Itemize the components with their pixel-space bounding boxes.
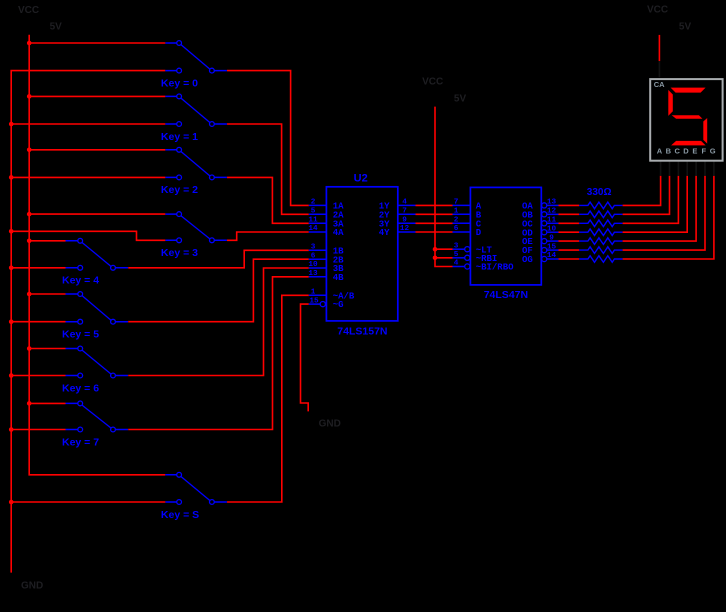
seven-segment display (common anode) — [650, 61, 722, 176]
resistor R2 330Ω — [579, 211, 622, 218]
junction VCC rail / Key=3 top — [27, 212, 32, 217]
svg-text:11: 11 — [308, 217, 318, 225]
wire resistor R2 to display segment B — [623, 176, 670, 215]
svg-text:Key = S: Key = S — [161, 509, 199, 521]
svg-text:U2: U2 — [354, 172, 368, 184]
svg-text:Key = 1: Key = 1 — [161, 131, 198, 143]
display segment F (lit) — [668, 90, 673, 116]
resistor R3 330Ω — [579, 220, 622, 227]
svg-text:4: 4 — [454, 260, 459, 268]
svg-text:6: 6 — [311, 252, 316, 260]
svg-text:Key = 4: Key = 4 — [62, 275, 99, 287]
svg-text:5V: 5V — [50, 21, 63, 32]
svg-text:10: 10 — [547, 225, 557, 233]
svg-text:9: 9 — [549, 234, 554, 242]
switch Key = 2 (SPDT) — [161, 147, 227, 196]
svg-text:Key = 2: Key = 2 — [161, 184, 198, 196]
wire VCC rail to Key=1 top contact — [29, 95, 165, 97]
svg-text:VCC: VCC — [647, 5, 668, 16]
svg-text:Key = 6: Key = 6 — [62, 382, 99, 394]
wire Key=6 common to U2 pin 10 (3B) — [128, 268, 309, 376]
wire resistor R7 to display segment G — [623, 176, 714, 259]
wire Key=7 common to U2 pin 13 (4B) — [128, 277, 309, 430]
junction VCC rail / Key=4 top — [27, 239, 32, 244]
wire Key=1 common to U2 pin 5 (2A) — [227, 124, 309, 214]
svg-text:7: 7 — [454, 199, 459, 207]
svg-text:E: E — [692, 146, 697, 155]
svg-text:4B: 4B — [333, 273, 344, 283]
svg-text:74LS157N: 74LS157N — [337, 326, 387, 338]
svg-text:6: 6 — [454, 225, 459, 233]
svg-text:5: 5 — [311, 208, 316, 216]
switch Key = 0 (SPDT) — [161, 41, 227, 90]
wire VCC rail to Key=5 top contact — [29, 293, 65, 295]
svg-text:4Y: 4Y — [379, 228, 390, 238]
svg-text:74LS47N: 74LS47N — [484, 289, 528, 301]
svg-text:OG: OG — [522, 255, 533, 265]
switch Key = 6 (SPDT) — [62, 346, 128, 394]
wire GND rail (left, vertical) — [11, 71, 165, 573]
junction GND rail / Key=4 bottom — [9, 266, 14, 271]
svg-text:GND: GND — [21, 581, 43, 592]
wire resistor R3 to display segment C — [623, 176, 679, 224]
wire resistor R1 to display segment A — [623, 176, 661, 206]
wire resistor R6 to display segment F — [623, 176, 705, 250]
svg-text:5V: 5V — [679, 21, 692, 32]
svg-text:330Ω: 330Ω — [587, 187, 612, 198]
wire U2 3Y to 74LS47N C — [416, 222, 453, 224]
svg-text:GND: GND — [319, 418, 341, 429]
switch Key = 7 (SPDT) — [62, 401, 128, 448]
wire VCC to 74LS47N ~LT/~RBI/~BI/RBO — [435, 107, 453, 267]
resistor R4 330Ω — [579, 229, 622, 236]
wire VCC rail to Key=3 top contact — [29, 213, 165, 215]
display segment A (lit) — [671, 88, 706, 93]
resistor R1 330Ω — [579, 202, 622, 209]
svg-text:2: 2 — [454, 217, 459, 225]
junction VCC / ~LT — [433, 247, 438, 252]
wire 74LS47N OB to resistor R2 — [559, 213, 580, 215]
junction VCC rail / Key=0 top — [27, 41, 32, 46]
wire resistor R5 to display segment E — [623, 176, 697, 241]
svg-text:A: A — [657, 146, 663, 155]
VCC power symbol (top-right) — [647, 5, 691, 33]
svg-text:7: 7 — [402, 208, 407, 216]
svg-text:~G: ~G — [333, 300, 344, 310]
wire VCC rail to Key=7 top contact — [29, 402, 65, 404]
wire Key=3 common to U2 pin 14 (4A) — [227, 232, 309, 240]
junction VCC rail / Key=2 top — [27, 148, 32, 153]
ground (bottom-left) — [21, 581, 43, 592]
svg-text:4A: 4A — [333, 228, 344, 238]
svg-text:VCC: VCC — [18, 5, 39, 16]
VCC power symbol (middle) — [422, 77, 466, 105]
svg-text:13: 13 — [308, 270, 318, 278]
junction GND rail / Key=S — [9, 500, 14, 505]
wire Key=0 common to U2 pin 2 (1A) — [227, 71, 309, 206]
wire GND rail to Key=5 bottom contact — [11, 321, 65, 323]
junction VCC rail / Key=7 top — [27, 401, 32, 406]
svg-text:5: 5 — [454, 251, 459, 259]
svg-text:14: 14 — [547, 252, 557, 260]
junction GND rail / Key=1 bottom — [9, 122, 14, 127]
svg-text:3: 3 — [454, 242, 459, 250]
svg-text:CA: CA — [654, 80, 665, 89]
svg-text:5V: 5V — [454, 94, 467, 105]
svg-text:15: 15 — [309, 297, 319, 305]
junction GND rail / Key=5 bottom — [9, 319, 14, 324]
svg-text:C: C — [674, 146, 680, 155]
wire U2 4Y to 74LS47N D — [416, 231, 453, 233]
wire VCC to display CA pin — [658, 35, 660, 61]
svg-text:Key = 3: Key = 3 — [161, 247, 198, 259]
multiplexer U2 74LS157N — [308, 172, 415, 337]
junction VCC rail / Key=6 top — [27, 346, 32, 351]
svg-text:12: 12 — [400, 225, 410, 233]
wire GND rail to Key=6 bottom contact — [11, 375, 65, 377]
wire Key=4 common to U2 pin 3 (1B) — [128, 250, 309, 267]
junction GND rail / Key=6 bottom — [9, 373, 14, 378]
wire VCC rail (left, vertical) — [29, 35, 165, 475]
svg-text:Key = 5: Key = 5 — [62, 329, 99, 341]
wire U2 2Y to 74LS47N B — [416, 213, 453, 215]
VCC power symbol (top-left) — [18, 5, 62, 32]
wire GND rail to Key=3 bottom contact (jogged) — [11, 231, 165, 240]
svg-text:~BI/RBO: ~BI/RBO — [476, 263, 514, 273]
junction GND rail / Key=2 bottom — [9, 175, 14, 180]
switch Key = 5 (SPDT) — [62, 292, 128, 341]
wire 74LS47N OF to resistor R6 — [559, 249, 580, 251]
junction VCC / ~RBI — [433, 255, 438, 260]
wire VCC rail to Key=4 top contact — [29, 240, 65, 242]
junction GND rail / Key=7 bottom — [9, 427, 14, 432]
svg-text:G: G — [710, 146, 716, 155]
wire GND rail to Key=7 bottom contact — [11, 429, 65, 431]
svg-text:15: 15 — [547, 243, 557, 251]
resistor R7 330Ω — [579, 256, 622, 263]
junction VCC rail / Key=1 top — [27, 94, 32, 99]
wire U2 1Y to 74LS47N A — [416, 204, 453, 206]
svg-text:B: B — [666, 146, 672, 155]
junction GND rail / Key=3 bottom — [9, 229, 14, 234]
svg-text:D: D — [683, 146, 689, 155]
svg-text:4: 4 — [402, 199, 407, 207]
switch Key = S (SPDT) — [161, 472, 227, 520]
resistor R5 330Ω — [579, 238, 622, 245]
svg-text:F: F — [702, 146, 707, 155]
svg-text:10: 10 — [308, 261, 318, 269]
ground (below U2) — [319, 418, 341, 429]
svg-text:9: 9 — [402, 217, 407, 225]
wire 74LS47N OC to resistor R3 — [559, 222, 580, 224]
wire Key=5 common to U2 pin 6 (2B) — [128, 259, 309, 322]
svg-text:VCC: VCC — [422, 77, 443, 88]
wire 74LS47N OG to resistor R7 — [559, 258, 580, 260]
BCD-to-7seg decoder U1 74LS47N — [453, 187, 559, 301]
display segment C (lit) — [703, 118, 707, 144]
svg-text:14: 14 — [308, 225, 318, 233]
junction VCC rail / Key=5 top — [27, 292, 32, 297]
switch Key = 3 (SPDT) — [161, 212, 227, 259]
svg-text:Key = 0: Key = 0 — [161, 77, 198, 89]
svg-text:D: D — [476, 228, 482, 238]
wire Key=S common to U2 pin 1 (~A/B) — [227, 295, 309, 502]
wire 74LS47N OE to resistor R5 — [559, 240, 580, 242]
svg-text:12: 12 — [547, 208, 557, 216]
wire 74LS47N OA to resistor R1 — [559, 204, 580, 206]
switch Key = 1 (SPDT) — [161, 94, 227, 143]
resistor R6 330Ω — [579, 247, 622, 254]
wire resistor R4 to display segment D — [623, 176, 688, 232]
svg-text:1: 1 — [454, 208, 459, 216]
wire GND rail to Key=S bottom contact — [11, 501, 165, 503]
svg-text:13: 13 — [547, 199, 557, 207]
wire 74LS47N OD to resistor R4 — [559, 231, 580, 233]
svg-text:Key = 7: Key = 7 — [62, 436, 99, 448]
wire GND rail to Key=2 bottom contact — [11, 176, 165, 178]
svg-text:3: 3 — [311, 244, 316, 252]
wire GND rail to Key=1 bottom contact — [11, 123, 165, 125]
wire VCC rail to Key=2 top contact — [29, 149, 165, 151]
display segment D (lit) — [671, 141, 706, 146]
wire VCC rail to Key=6 top contact — [29, 348, 65, 350]
wire VCC rail to Key=0 top contact — [29, 42, 165, 44]
wire GND rail to Key=4 bottom contact — [11, 267, 65, 269]
wire Key=2 common to U2 pin 11 (3A) — [227, 177, 309, 223]
display segment G (lit) — [672, 115, 703, 119]
switch Key = 4 (SPDT) — [62, 238, 128, 286]
svg-text:11: 11 — [547, 217, 557, 225]
svg-text:2: 2 — [311, 199, 316, 207]
svg-text:1: 1 — [311, 289, 316, 297]
wire U2 pin 15 (~G) to ground — [301, 304, 309, 411]
